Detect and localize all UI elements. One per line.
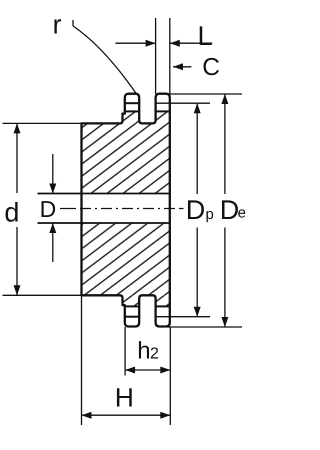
tooth pitch line top-left (line1) xyxy=(125,102,139,104)
Dp dimension line upper xyxy=(196,103,198,194)
svg-text:C: C xyxy=(202,54,220,81)
svg-text:D: D xyxy=(40,196,57,222)
hatched section: body upper part xyxy=(82,123,170,193)
D lower arrow xyxy=(52,223,54,262)
svg-text:D: D xyxy=(186,195,206,225)
hatched section: top-left tooth root xyxy=(123,111,140,123)
tooth shoulder line top-right (line2) xyxy=(156,110,170,112)
hatched section: top-right tooth root xyxy=(156,111,170,123)
tooth shoulder line bottom-left (line2) xyxy=(125,305,139,307)
L extension line left xyxy=(155,18,157,94)
H extension line left xyxy=(81,295,83,425)
bore top line xyxy=(38,193,170,195)
svg-text:e: e xyxy=(238,205,246,222)
svg-text:D: D xyxy=(220,195,240,225)
d dimension line lower xyxy=(16,227,18,295)
tooth pitch line bottom-left (line1) xyxy=(125,316,139,318)
r leader tick xyxy=(72,20,74,26)
bore bottom line xyxy=(38,222,170,224)
De dimension line lower xyxy=(224,228,226,328)
L dimension right arrow xyxy=(170,42,213,44)
hatched section: bottom-left tooth root xyxy=(123,295,140,306)
centerline xyxy=(60,208,184,210)
Dp dimension line lower xyxy=(196,228,198,317)
tooth shoulder line bottom-right (line2) xyxy=(156,305,170,307)
svg-text:p: p xyxy=(206,206,214,223)
r leader arc xyxy=(73,26,137,94)
H dimension line xyxy=(82,414,171,416)
svg-text:L: L xyxy=(198,21,213,51)
h2 dimension line xyxy=(125,369,170,371)
d extension line top xyxy=(3,122,82,124)
C arrow xyxy=(173,66,191,68)
tooth shoulder line top-left (line2) xyxy=(125,110,139,112)
hatched section: bottom-right tooth root xyxy=(156,295,170,306)
svg-text:r: r xyxy=(53,10,62,40)
sprocket cross-section outline xyxy=(82,94,170,327)
h2 extension line left xyxy=(124,327,126,376)
svg-text:2: 2 xyxy=(150,346,159,363)
D upper arrow xyxy=(52,154,54,194)
Dp extension line top xyxy=(156,102,210,104)
H/h2 extension line right xyxy=(169,327,171,425)
Dp extension line bottom xyxy=(156,316,210,318)
d dimension line upper xyxy=(16,123,18,193)
De dimension line upper xyxy=(224,94,226,194)
svg-text:h: h xyxy=(137,337,150,364)
svg-text:H: H xyxy=(115,383,134,413)
De extension line top xyxy=(167,93,242,95)
hatched section: body lower part xyxy=(82,223,170,295)
d extension line bottom xyxy=(3,294,82,296)
De extension line bottom xyxy=(167,326,242,328)
L dimension left arrow xyxy=(115,42,155,44)
L extension line right xyxy=(169,18,171,94)
svg-text:d: d xyxy=(4,197,19,227)
